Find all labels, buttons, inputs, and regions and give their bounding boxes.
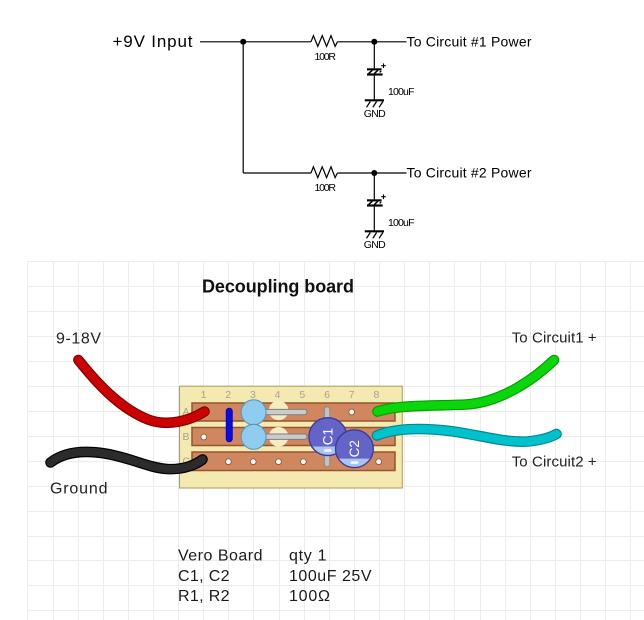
ground GND2 xyxy=(364,231,386,251)
svg-text:C1, C2: C1, C2 xyxy=(178,568,230,585)
title Decoupling board xyxy=(202,277,354,297)
jumper link col2 A-B xyxy=(226,408,232,442)
svg-text:9-18V: 9-18V xyxy=(56,331,101,348)
label To Circuit1 + xyxy=(512,330,597,347)
svg-text:Ground: Ground xyxy=(50,481,108,498)
svg-text:GND: GND xyxy=(364,239,386,251)
svg-text:5: 5 xyxy=(299,389,305,401)
value label 100R (R2) xyxy=(315,182,337,194)
svg-text:R1, R2: R1, R2 xyxy=(178,588,230,605)
copper strip B xyxy=(192,428,395,446)
svg-text:+9V Input: +9V Input xyxy=(113,32,193,51)
wire input to node A xyxy=(200,41,311,43)
row labels A B C xyxy=(183,406,191,468)
black wire Ground to C1 xyxy=(51,452,203,469)
red wire 9-18V to A1 xyxy=(78,360,204,423)
wire trunk to row 2 xyxy=(243,172,311,174)
svg-text:Decoupling board: Decoupling board xyxy=(202,277,354,297)
wire C2 to ground xyxy=(373,207,375,231)
svg-text:C2: C2 xyxy=(347,440,362,457)
svg-text:To Circuit2 +: To Circuit2 + xyxy=(512,454,597,471)
node B junction xyxy=(371,39,377,45)
resistor R1 body xyxy=(241,400,266,425)
value label 100R (R1) xyxy=(315,51,337,63)
svg-text:100R: 100R xyxy=(315,51,337,63)
svg-text:4: 4 xyxy=(275,389,281,401)
svg-text:B: B xyxy=(183,431,190,443)
trace cut A4 xyxy=(269,401,289,421)
svg-text:qty 1: qty 1 xyxy=(289,547,327,564)
svg-text:2: 2 xyxy=(225,389,231,401)
holes strip C xyxy=(226,459,382,465)
BOM row C1,C2 100uF 25V xyxy=(178,568,372,585)
wire node C to C2 xyxy=(373,173,375,199)
svg-text:Vero Board: Vero Board xyxy=(178,547,263,564)
value label 100uF (C1) xyxy=(388,86,415,98)
copper strip C xyxy=(192,452,395,471)
cyan wire B8 to Circuit2 xyxy=(377,429,557,442)
wire vertical trunk node A down xyxy=(242,42,244,173)
resistor R2 lead (B3-B5) xyxy=(251,434,308,439)
capacitor C1 lead (A6-C6) xyxy=(324,407,329,467)
net label To Circuit #1 Power xyxy=(407,34,532,50)
svg-text:C1: C1 xyxy=(320,428,335,445)
node C junction xyxy=(371,170,377,176)
BOM row Vero Board qty 1 xyxy=(178,547,327,564)
BOM row R1,R2 100 ohm xyxy=(178,588,330,605)
capacitor C2 body xyxy=(334,430,375,469)
svg-text:100uF: 100uF xyxy=(388,86,415,98)
svg-text:GND: GND xyxy=(364,108,386,120)
svg-text:100R: 100R xyxy=(315,182,337,194)
svg-text:1: 1 xyxy=(201,389,207,401)
label Ground xyxy=(50,481,108,498)
hole B1 xyxy=(201,434,207,440)
resistor R2 body xyxy=(241,424,266,449)
hole A7 xyxy=(349,409,355,415)
svg-text:To Circuit1 +: To Circuit1 + xyxy=(512,330,597,347)
svg-text:7: 7 xyxy=(349,389,355,401)
svg-text:6: 6 xyxy=(324,389,330,401)
wire R2 to node C xyxy=(337,172,406,174)
resistor R1 xyxy=(311,36,337,47)
svg-text:8: 8 xyxy=(373,389,379,401)
capacitor C2 (polarized) xyxy=(367,194,386,206)
resistor R1 lead (A3-A5) xyxy=(251,409,308,414)
column numbers 1-8 xyxy=(201,389,380,401)
net label +9V Input xyxy=(113,32,193,51)
wire C1 to ground xyxy=(373,76,375,100)
svg-text:100Ω: 100Ω xyxy=(289,588,330,605)
net label To Circuit #2 Power xyxy=(407,165,532,181)
svg-text:To Circuit #1 Power: To Circuit #1 Power xyxy=(407,34,532,50)
node A junction xyxy=(240,39,246,45)
capacitor C1 body xyxy=(308,418,348,457)
resistor R2 xyxy=(311,167,337,178)
grid of layout area xyxy=(27,262,644,620)
svg-text:3: 3 xyxy=(250,389,256,401)
label To Circuit2 + xyxy=(512,454,597,471)
trace cut B4 xyxy=(269,427,289,447)
vero board substrate xyxy=(180,386,403,488)
copper strip A xyxy=(192,403,395,421)
svg-text:100uF 25V: 100uF 25V xyxy=(289,568,372,585)
wire R1 to node B xyxy=(337,41,406,43)
green wire A8 to Circuit1 xyxy=(378,360,555,412)
capacitor C1 (polarized) xyxy=(367,63,386,75)
label 9-18V xyxy=(56,331,101,348)
ground GND1 xyxy=(364,100,386,120)
value label 100uF (C2) xyxy=(388,217,415,229)
svg-text:100uF: 100uF xyxy=(388,217,415,229)
wire node B to C1 xyxy=(373,42,375,69)
svg-text:To Circuit #2 Power: To Circuit #2 Power xyxy=(407,165,532,181)
